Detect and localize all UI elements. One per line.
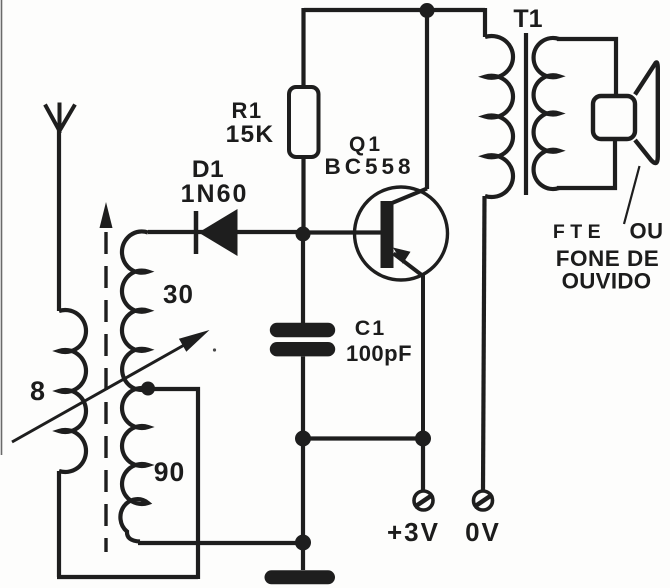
node base junction [296,227,311,242]
svg-text:15K: 15K [226,121,275,148]
wire 0V lead [483,196,485,490]
diode D1 [196,209,238,256]
transistor Q1 [303,187,448,438]
svg-text:R1: R1 [231,98,262,123]
svg-text:D1: D1 [192,156,224,183]
node ground junction [295,535,311,551]
svg-text:Q1: Q1 [349,133,383,156]
wire top rail [304,8,485,12]
capacitor C1 [277,234,328,570]
svg-text:90: 90 [154,457,185,487]
wire bottom left [57,575,198,579]
svg-text:+3V: +3V [387,517,440,547]
svg-text:1N60: 1N60 [181,180,249,208]
svg-text:0V: 0V [465,517,501,547]
terminal +3V [414,491,433,510]
svg-text:FONE DE: FONE DE [556,246,660,271]
wire R1 top lead [301,8,305,87]
svg-text:30: 30 [163,279,194,309]
wire antenna coil bottom [57,471,61,577]
resistor R1 [289,87,319,157]
svg-text:FTE: FTE [553,221,606,243]
tuning arrow [12,330,210,442]
wire R1 bottom lead [301,157,305,232]
node emitter junction [415,431,431,447]
wire 90 bottom to ground node [138,541,303,545]
scan speck [213,348,216,351]
wire collector [425,10,429,189]
wire diode to base [148,230,303,234]
coil L1 winding 8 [59,310,86,472]
scan edge artifact [1,0,3,455]
transformer T1 secondary [534,38,559,189]
node collector rail junction [420,3,435,18]
wire secondary top to speaker [557,39,616,98]
antenna [45,103,75,312]
speaker driver [593,96,635,139]
wire tap return [148,389,198,579]
svg-text:8: 8 [30,376,45,406]
node C1 bottom junction [295,431,311,447]
ground [272,570,329,584]
speaker pointer line [624,166,640,224]
wire secondary bottom to speaker [557,137,615,188]
node tap junction [141,382,155,396]
svg-text:100pF: 100pF [346,341,412,366]
coil L1 winding 90 [120,388,148,542]
terminal 0V [474,491,493,510]
wire to +3V terminal [421,439,425,491]
transformer T1 core [524,33,528,195]
svg-text:C1: C1 [355,316,386,340]
svg-text:T1: T1 [513,5,542,33]
ferrite core dashed arrow [100,202,113,552]
coil L1 winding 30 [122,231,148,390]
transformer T1 primary [485,8,513,197]
svg-text:BC558: BC558 [324,154,414,179]
wire emitter node horizontal [303,436,423,440]
speaker cone [635,62,658,163]
svg-text:OU: OU [630,219,664,244]
svg-text:OUVIDO: OUVIDO [562,269,652,294]
